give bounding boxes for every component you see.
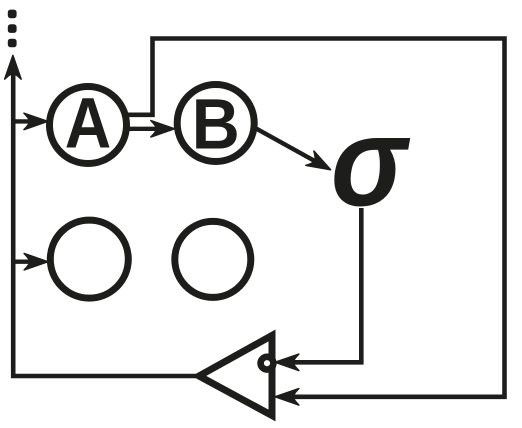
node lower-right (empty circle): [175, 221, 251, 297]
wire arrow B to sigma (diagonal): [254, 127, 318, 163]
wire arrow into lower-left node: [13, 260, 34, 264]
wire top feedback loop (from A up over to right side, down, into gate): [126, 39, 505, 397]
arrowhead into gate lower input: [275, 389, 299, 405]
wire arrow into node A: [13, 119, 34, 123]
node A: [50, 87, 127, 164]
ellipsis dots: [8, 10, 17, 48]
svg-text:B: B: [192, 86, 240, 165]
arrowhead up at top of left line: [5, 56, 21, 80]
svg-text:σ: σ: [331, 91, 410, 233]
wire arrow A to B: [124, 127, 160, 131]
node B: [177, 85, 254, 162]
wire sigma down into gate upper input: [291, 208, 361, 362]
gate triangle (points left): [199, 336, 272, 416]
wire left vertical feedback line: [13, 70, 199, 376]
gate bubble: [261, 357, 274, 370]
node lower-left (empty circle): [50, 220, 128, 298]
svg-text:A: A: [65, 85, 112, 164]
